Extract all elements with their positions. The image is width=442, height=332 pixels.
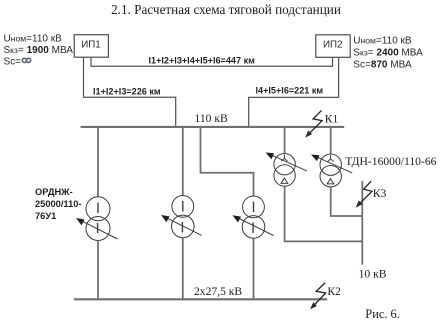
svg-text:110 кВ: 110 кВ	[195, 112, 228, 125]
wire 10kV feeder	[361, 181, 363, 265]
wire bus to T5	[330, 127, 332, 154]
infinity symbol (Sc)	[22, 58, 30, 62]
svg-text:ОРДНЖ-: ОРДНЖ-	[35, 187, 73, 197]
svg-text:Рис. 6.: Рис. 6.	[365, 307, 400, 321]
svg-text:10 кВ: 10 кВ	[359, 268, 387, 281]
svg-text:К1: К1	[325, 113, 339, 126]
svg-text:Sс=: Sс=	[4, 56, 22, 67]
svg-text:К2: К2	[327, 285, 341, 298]
transformer T2	[166, 196, 202, 238]
source parameters text (left, ИП1)	[4, 34, 74, 68]
wire line l1+l2+l3 from ИП1 to 110kV bus	[84, 57, 176, 127]
source box ИП2	[316, 35, 350, 58]
wire bus to T3 (jog)	[201, 127, 254, 196]
wire bus to T4	[284, 127, 286, 154]
svg-text:l1+l2+l3+l4+l5+l6=447 км: l1+l2+l3+l4+l5+l6=447 км	[149, 56, 256, 66]
wire T3 to 27.5kV bus	[253, 238, 255, 299]
svg-text:ТДН-16000/110-66: ТДН-16000/110-66	[345, 155, 436, 168]
wire T1 to 27.5kV bus	[97, 241, 99, 300]
svg-text:Uном=110 кВ: Uном=110 кВ	[4, 34, 63, 45]
transformer T3	[237, 196, 273, 238]
svg-text:l1+l2+l3=226 км: l1+l2+l3=226 км	[93, 86, 161, 96]
wire line l4+l5+l6 from ИП2 to 110kV bus	[249, 58, 339, 127]
svg-text:25000/110-: 25000/110-	[35, 199, 82, 209]
svg-text:Sс=870 МВА: Sс=870 МВА	[353, 60, 412, 71]
wire bus to T2	[182, 127, 184, 196]
wire T2 to 27.5kV bus	[182, 238, 184, 300]
short-circuit marker К3	[358, 181, 372, 205]
wire bus to T1	[97, 127, 99, 197]
transformer T1 ОРДНЖ-25000/110-76У1	[81, 197, 118, 241]
source box ИП1	[74, 35, 108, 58]
transformer T4 ТДН-16000/110-66	[270, 154, 307, 187]
wire T4 to 10kV node	[285, 186, 363, 241]
svg-text:К3: К3	[373, 187, 387, 200]
transformer T5	[316, 154, 352, 187]
wire T5 to 10kV node	[331, 187, 363, 216]
svg-text:Sкз= 1900 МВА: Sкз= 1900 МВА	[4, 45, 74, 56]
svg-text:ИП2: ИП2	[323, 40, 343, 51]
bus 2х27,5 кВ	[74, 298, 327, 300]
svg-text:Sкз= 2400 МВА: Sкз= 2400 МВА	[353, 47, 423, 58]
svg-text:2.1. Расчетная схема тяговой п: 2.1. Расчетная схема тяговой подстанции	[111, 2, 341, 17]
short-circuit marker К2	[313, 283, 326, 307]
svg-text:l4+l5+l6=221 км: l4+l5+l6=221 км	[256, 86, 324, 96]
label ОРДНЖ-25000/110-76У1	[35, 187, 82, 221]
svg-text:2х27,5 кВ: 2х27,5 кВ	[194, 285, 242, 298]
short-circuit marker К1	[308, 110, 323, 135]
bus 110 кВ	[81, 126, 345, 128]
svg-text:76У1: 76У1	[35, 211, 56, 221]
source parameters text (right, ИП2)	[353, 35, 423, 70]
svg-text:Uном=110 кВ: Uном=110 кВ	[353, 35, 412, 46]
svg-text:ИП1: ИП1	[81, 40, 101, 51]
wire line l1..l6 from ИП1 to ИП2	[91, 57, 333, 66]
